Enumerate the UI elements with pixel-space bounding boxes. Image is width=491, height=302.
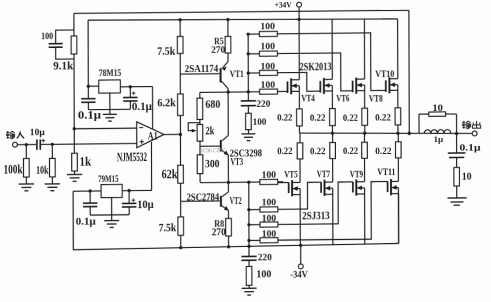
svg-text:VT2: VT2: [230, 196, 242, 207]
svg-text:VT3: VT3: [231, 157, 244, 168]
svg-text:0.22: 0.22: [277, 113, 292, 124]
svg-text:300: 300: [205, 156, 220, 170]
svg-text:0.22: 0.22: [343, 146, 358, 157]
svg-text:100: 100: [41, 31, 53, 42]
svg-text:A1: A1: [148, 130, 158, 142]
svg-text:VT5: VT5: [284, 169, 297, 180]
svg-text:100k: 100k: [4, 163, 24, 177]
svg-text:VT10: VT10: [375, 70, 394, 80]
svg-text:-34V: -34V: [290, 269, 308, 280]
svg-text:0.22: 0.22: [375, 113, 391, 124]
svg-text:10μ: 10μ: [137, 199, 154, 211]
svg-text:VT6: VT6: [336, 94, 349, 105]
svg-text:220: 220: [256, 99, 270, 110]
svg-text:100: 100: [262, 230, 277, 240]
svg-text:0.22: 0.22: [310, 113, 326, 124]
svg-text:VT1: VT1: [230, 69, 244, 79]
svg-text:1k: 1k: [80, 155, 92, 169]
svg-text:0.1μ: 0.1μ: [76, 216, 96, 227]
svg-text:100: 100: [260, 42, 275, 52]
svg-text:0.1μ: 0.1μ: [78, 110, 102, 122]
svg-text:62k: 62k: [162, 167, 178, 181]
svg-text:0.22: 0.22: [343, 113, 358, 124]
svg-text:IC06.CZW: IC06.CZW: [201, 147, 226, 154]
svg-text:100: 100: [256, 268, 271, 280]
svg-text:100: 100: [262, 214, 277, 224]
svg-text:270: 270: [211, 45, 225, 56]
svg-text:270: 270: [212, 227, 226, 238]
svg-text:9.1k: 9.1k: [53, 59, 74, 72]
svg-text:7.5k: 7.5k: [157, 46, 176, 58]
svg-text:2SA1174: 2SA1174: [185, 64, 219, 75]
svg-text:2SC2784: 2SC2784: [187, 191, 220, 203]
svg-text:680: 680: [205, 97, 220, 111]
svg-text:220: 220: [258, 252, 272, 263]
svg-text:VT7: VT7: [317, 169, 330, 180]
svg-text:100: 100: [261, 62, 276, 72]
svg-text:10: 10: [432, 103, 443, 114]
svg-text:0.1μ: 0.1μ: [459, 144, 481, 154]
svg-text:NJM5532: NJM5532: [117, 150, 147, 164]
svg-text:7.5k: 7.5k: [159, 222, 177, 234]
svg-text:VT8: VT8: [369, 94, 383, 105]
svg-text:100: 100: [260, 21, 275, 32]
svg-text:0.1μ: 0.1μ: [132, 101, 153, 113]
svg-text:100: 100: [253, 118, 267, 128]
svg-text:2SK2013: 2SK2013: [300, 59, 332, 73]
svg-text:79M15: 79M15: [98, 174, 119, 185]
svg-text:0.22: 0.22: [375, 146, 391, 157]
svg-text:VT9: VT9: [350, 169, 363, 180]
svg-text:100: 100: [262, 169, 277, 180]
svg-text:VT4: VT4: [301, 93, 315, 104]
svg-text:1μ: 1μ: [434, 134, 444, 144]
svg-text:78M15: 78M15: [99, 68, 122, 79]
svg-text:100: 100: [261, 81, 276, 91]
svg-text:VT11: VT11: [377, 167, 395, 178]
svg-text:10k: 10k: [36, 164, 49, 176]
svg-text:10: 10: [462, 171, 472, 183]
svg-text:6.2k: 6.2k: [157, 95, 176, 109]
svg-text:+34V: +34V: [275, 0, 292, 9]
svg-text:100: 100: [262, 197, 277, 208]
svg-text:10μ: 10μ: [30, 127, 46, 137]
svg-text:0.22: 0.22: [277, 146, 292, 157]
svg-text:2k: 2k: [205, 123, 214, 137]
svg-text:2SJ313: 2SJ313: [302, 208, 330, 222]
svg-text:0.22: 0.22: [310, 146, 326, 157]
